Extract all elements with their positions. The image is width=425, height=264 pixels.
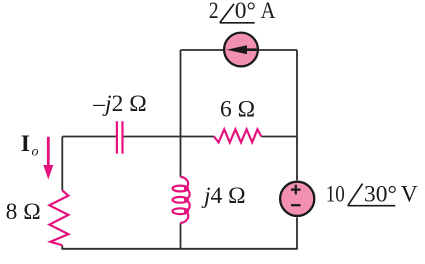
svg-text:o: o (32, 145, 39, 160)
svg-text:I: I (21, 131, 30, 157)
svg-text:V: V (401, 182, 418, 208)
svg-text:j4 Ω: j4 Ω (201, 183, 246, 209)
svg-text:2: 2 (209, 0, 219, 24)
svg-text:6 Ω: 6 Ω (220, 97, 255, 123)
svg-text:10: 10 (326, 182, 345, 208)
svg-text:30°: 30° (364, 182, 397, 208)
svg-text:8 Ω: 8 Ω (6, 199, 41, 225)
svg-text:A: A (261, 0, 276, 24)
svg-text:0°: 0° (235, 0, 256, 24)
svg-text:–j2 Ω: –j2 Ω (92, 91, 146, 117)
